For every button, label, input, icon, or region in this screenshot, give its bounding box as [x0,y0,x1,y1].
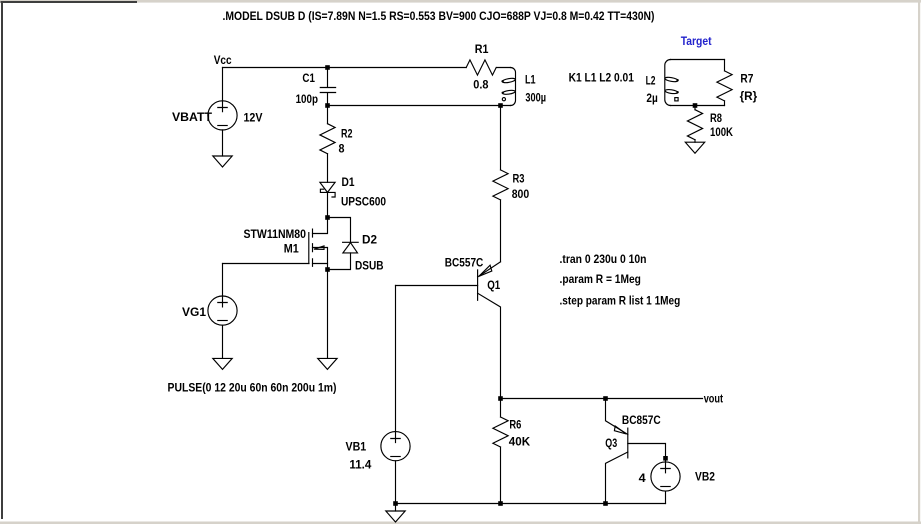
svg-text:300µ: 300µ [525,91,546,105]
transistor Q3 (PNP BC857C) [606,399,628,435]
svg-text:C1: C1 [302,71,315,85]
svg-text:R2: R2 [341,126,353,140]
resistor R8 [694,106,696,110]
svg-text:BC557C: BC557C [445,256,484,270]
svg-text:800: 800 [512,187,530,201]
resistor R2 zigzag [320,124,335,154]
wire rail C1-L1 [328,105,511,107]
junction R6 bottom [498,501,503,506]
svg-text:STW11NM80: STW11NM80 [244,227,307,241]
svg-text:.step param R list 1 1Meg: .step param R list 1 1Meg [560,293,681,307]
svg-text:VB2: VB2 [695,470,715,484]
svg-text:Q1: Q1 [487,278,500,292]
diode D2 [343,241,359,243]
transistor Q1 (PNP BC557C) [477,270,479,300]
wire Q3 base to VB2 [628,444,666,463]
svg-text:4: 4 [639,471,646,485]
resistor R3 zigzag [493,170,508,200]
wire vout rail [501,398,703,400]
resistor R7 zigzag [717,71,732,101]
junction Q3 bottom [603,501,608,506]
wire R6 top lead [500,399,502,418]
resistor R6 zigzag [493,417,508,447]
junction C1 bottom [325,103,330,108]
L2 phase marker [675,98,678,101]
ground VBATT ground [213,156,232,167]
junction VB2 top [663,456,668,461]
window border top-left dark segment [1,1,138,3]
svg-text:BC857C: BC857C [622,413,661,427]
svg-text:0.8: 0.8 [473,78,488,92]
transistor M1 (NMOS) [313,218,328,234]
svg-text:Target: Target [681,34,712,48]
svg-text:M1: M1 [284,241,299,255]
wire base to VB1 [395,286,397,432]
svg-text:.tran 0 230u 0 10n: .tran 0 230u 0 10n [560,252,647,266]
L1 phase dot [502,98,505,101]
wire D2 branch top [328,218,351,243]
wire M1 source down [327,270,329,359]
svg-text:R6: R6 [509,417,521,431]
wire Target bottom [671,105,725,107]
svg-text:R3: R3 [513,172,525,186]
voltage source VBATT [222,68,224,101]
resistor R7 [724,60,726,71]
wire gate [223,263,310,265]
svg-text:40K: 40K [509,434,531,448]
junction Q1-R6-vout [498,396,503,401]
wire R3 top lead [500,106,502,170]
svg-text:PULSE(0 12 20u 60n 60n 200u 1m: PULSE(0 12 20u 60n 60n 200u 1m) [168,380,337,394]
svg-text:8: 8 [339,142,345,156]
ground VG1 ground [213,358,232,369]
Q3 emitter arrow [614,426,626,434]
svg-text:{R}: {R} [740,89,758,103]
M1 body arrow [314,246,324,250]
resistor R1 zigzag [466,60,496,75]
junction M1 source [325,267,330,272]
wire Target top [671,59,725,61]
svg-text:R7: R7 [740,72,753,86]
svg-text:VB1: VB1 [346,440,367,454]
svg-text:D1: D1 [342,175,355,189]
ground R8 ground [685,142,704,153]
junction L2-R7-R8 [693,103,698,108]
window border top beige [0,0,921,3]
svg-text:.param R = 1Meg: .param R = 1Meg [560,272,641,286]
svg-text:11.4: 11.4 [349,458,371,472]
voltage source VB1 [381,432,410,461]
svg-text:vout: vout [704,391,723,405]
wire Vcc rail [223,67,511,69]
junction VB1 bottom [393,501,398,506]
junction Q3-vout [603,396,608,401]
voltage source VB2 [651,462,680,491]
svg-text:D2: D2 [362,233,377,247]
voltage source VG1 [208,296,237,325]
svg-text:12V: 12V [244,111,263,125]
svg-text:R1: R1 [475,42,489,56]
svg-text:Q3: Q3 [605,436,617,450]
svg-text:VG1: VG1 [182,305,206,319]
svg-text:L1: L1 [525,72,536,86]
window border right beige [918,0,920,524]
wire bottom rail [396,503,666,505]
junction D1-D2-M1 [325,215,330,220]
svg-text:.MODEL DSUB D (IS=7.89N N=1.5: .MODEL DSUB D (IS=7.89N N=1.5 RS=0.553 B… [223,9,655,23]
svg-text:R8: R8 [710,111,722,125]
Q1 emitter arrow [479,265,492,276]
VB1 ground [395,504,397,512]
inductor L2 [665,60,671,106]
svg-text:VBATT: VBATT [172,110,213,124]
svg-text:DSUB: DSUB [355,259,384,273]
capacitor C1 [320,68,335,106]
wire R2 top lead [327,106,329,124]
wire Q1 base [396,285,478,287]
svg-text:K1 L1 L2 0.01: K1 L1 L2 0.01 [569,71,635,85]
diode D1 (schottky) [320,182,335,192]
svg-text:100K: 100K [710,125,733,139]
svg-text:2µ: 2µ [646,91,657,105]
window border left dark [1,1,3,519]
resistor R8 zigzag [687,110,702,140]
junction L1 bottom [498,103,503,108]
svg-text:100p: 100p [296,92,318,106]
ground M1 ground [318,358,337,369]
inductor L1 [511,68,516,106]
svg-text:Vcc: Vcc [214,53,232,67]
window border bottom beige [0,522,921,525]
junction C1 top [325,65,330,70]
svg-text:UPSC600: UPSC600 [341,195,386,209]
svg-text:L2: L2 [646,73,656,87]
ground VB1 ground [386,511,405,522]
